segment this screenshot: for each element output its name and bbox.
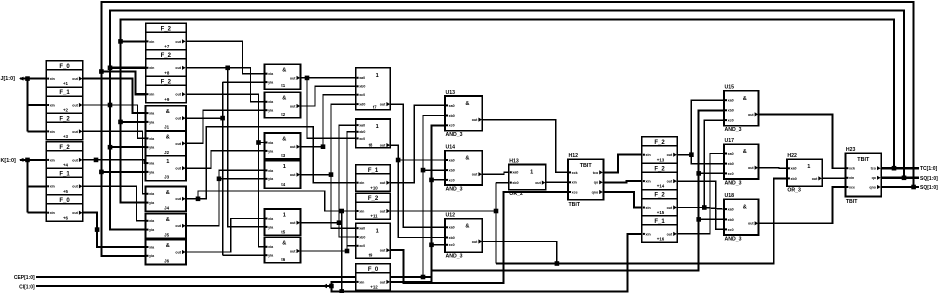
wire CEP tap to U13 pin2	[423, 116, 445, 278]
wire net X to H13 pin2	[496, 182, 509, 184]
AND_3 gate U14	[445, 144, 482, 192]
svg-text:+7: +7	[164, 44, 170, 49]
svg-text:out: out	[290, 76, 296, 80]
T flip-flop H23	[845, 147, 881, 205]
bus tap F_2 (+15)	[642, 190, 677, 216]
svg-text:1: 1	[376, 124, 379, 130]
junction CI rip	[339, 289, 344, 293]
svg-text:t2: t2	[281, 112, 285, 117]
svg-text:F_2: F_2	[654, 193, 665, 199]
svg-text:OR_2: OR_2	[509, 191, 523, 197]
svg-text:xin: xin	[50, 185, 55, 189]
AND_3 gate U15	[724, 85, 759, 133]
wire t2 out to OR4	[301, 77, 356, 79]
wire J5 branch to t5 pin2	[219, 178, 265, 180]
svg-text:tco: tco	[871, 167, 877, 171]
svg-text:J1: J1	[164, 125, 169, 130]
svg-text:xck: xck	[849, 167, 855, 171]
wire J3 out to t4	[186, 151, 265, 168]
svg-text:out: out	[667, 153, 673, 157]
junction CEP-U14 a	[421, 168, 426, 173]
wire net X vertical	[495, 183, 497, 264]
svg-text:out: out	[748, 166, 754, 170]
wire feedback bus B lower branch	[110, 68, 146, 147]
junction F+6 net	[95, 227, 100, 232]
svg-text:AND_3: AND_3	[725, 237, 742, 243]
svg-text:U14: U14	[446, 144, 456, 150]
wire CEP branch to U14 pin3	[432, 179, 446, 181]
wire U16 out to H22	[759, 167, 787, 170]
wire F+7 out to gate t2	[186, 41, 265, 73]
bus tap F_2 (+13)	[642, 137, 677, 163]
wire F+11 out net	[390, 210, 496, 212]
wire CEP branch to U12 pin3	[432, 244, 446, 246]
bus tap F_0 (+6)	[46, 195, 83, 221]
svg-text:out: out	[72, 130, 78, 134]
svg-text:F_1: F_1	[654, 219, 665, 225]
svg-text:xin: xin	[359, 209, 364, 213]
svg-text:SQ[1:0]: SQ[1:0]	[920, 176, 938, 182]
wire K input	[20, 159, 46, 161]
wire F+3 out to gate J4	[83, 131, 146, 193]
junction F+9 net	[256, 140, 261, 145]
svg-text:xb0: xb0	[359, 130, 365, 134]
wire F+6 out to gate J6	[83, 213, 146, 247]
svg-text:xin: xin	[50, 158, 55, 162]
bus tap F_2 (+11)	[356, 193, 391, 219]
svg-text:xin: xin	[149, 93, 154, 97]
svg-text:F_2: F_2	[161, 53, 172, 59]
svg-text:xin: xin	[646, 153, 651, 157]
svg-text:xin: xin	[149, 40, 154, 44]
svg-text:t4: t4	[281, 182, 285, 187]
svg-text:+10: +10	[370, 185, 378, 190]
svg-text:t9: t9	[369, 253, 373, 258]
OR gate J3	[146, 156, 187, 181]
svg-text:qno: qno	[592, 190, 599, 194]
svg-text:out: out	[175, 224, 181, 228]
svg-text:xb0: xb0	[791, 177, 797, 181]
wire F+9 branch to gate t7	[259, 143, 265, 247]
svg-text:out: out	[667, 206, 673, 210]
svg-text:J4: J4	[164, 205, 169, 210]
bus tap F_2 (+7)	[146, 23, 187, 49]
AND_3 gate U13	[445, 90, 482, 138]
wire CEP bus	[36, 125, 445, 277]
bus tap F_2 (+9)	[146, 76, 187, 102]
svg-text:TBIT: TBIT	[846, 199, 858, 205]
junction CI split	[329, 284, 334, 289]
wire F+15 branch to U17	[704, 208, 724, 210]
svg-text:AND_3: AND_3	[725, 127, 742, 133]
bus tap F_1 (+2)	[46, 87, 83, 113]
svg-text:&: &	[166, 134, 170, 140]
svg-text:AND_3: AND_3	[446, 132, 463, 138]
svg-text:F_2: F_2	[161, 79, 172, 85]
svg-text:out: out	[72, 211, 78, 215]
svg-text:U17: U17	[725, 138, 735, 144]
svg-text:xc0: xc0	[359, 244, 365, 248]
svg-text:F_2: F_2	[654, 166, 665, 172]
wire SQ2 output	[881, 186, 919, 188]
svg-text:xck: xck	[572, 171, 578, 175]
svg-text:xin: xin	[149, 66, 154, 70]
svg-text:tco: tco	[593, 171, 599, 175]
wire F+10 out to U13 pin1	[390, 105, 445, 182]
OR gate t9 (3-input)	[356, 119, 391, 148]
wire F+8 out to gate t3	[186, 68, 265, 102]
wire U17 out to TBIT H23	[759, 187, 846, 223]
svg-text:AND_3: AND_3	[446, 254, 463, 260]
wire t6 out to OR3	[301, 125, 356, 223]
svg-text:xb0: xb0	[449, 114, 455, 118]
wire F+13 branch to U16	[691, 155, 724, 164]
svg-text:xin: xin	[50, 211, 55, 215]
svg-text:1: 1	[530, 170, 533, 176]
junction t4 net	[321, 144, 326, 149]
svg-text:xa0: xa0	[728, 152, 734, 156]
wire feedback bus C (TC loop, top)	[121, 20, 895, 169]
wire H13 out to H12	[546, 181, 568, 183]
svg-text:xc0: xc0	[449, 178, 455, 182]
svg-text:J2: J2	[164, 150, 169, 155]
wire K to F_1	[28, 185, 47, 187]
AND gate J5	[146, 214, 187, 239]
junction J5 net	[217, 177, 222, 182]
svg-text:F_2: F_2	[59, 117, 70, 123]
svg-text:+14: +14	[657, 184, 665, 189]
svg-text:+2: +2	[63, 108, 69, 113]
AND gate J1	[146, 106, 187, 131]
wire F+8 branch to gate t6	[228, 68, 265, 227]
svg-text:xc0: xc0	[728, 228, 734, 232]
svg-text:F_1: F_1	[368, 168, 379, 174]
svg-text:&: &	[743, 96, 747, 102]
junction F+4 net	[94, 158, 99, 163]
junction F+11 net	[494, 209, 499, 214]
wire H12 qo to F+14	[603, 181, 642, 182]
svg-text:xb0: xb0	[728, 218, 734, 222]
svg-text:out: out	[175, 117, 181, 121]
svg-text:&: &	[743, 149, 747, 155]
svg-text:out: out	[175, 40, 181, 44]
wire U13 out to H12	[482, 120, 568, 173]
junction F+2 crossing	[108, 103, 113, 108]
svg-text:xc0: xc0	[359, 93, 365, 97]
wire t3 out to OR4	[301, 86, 356, 106]
junction TC feedback	[892, 166, 897, 171]
svg-text:xc0: xc0	[728, 119, 734, 123]
AND_3 gate U16	[724, 138, 759, 186]
svg-text:1: 1	[376, 73, 379, 79]
svg-text:xa0: xa0	[359, 227, 365, 231]
svg-text:&: &	[282, 96, 286, 102]
svg-text:xc0: xc0	[359, 137, 365, 141]
OR gate t4	[265, 161, 301, 188]
junction F+15 net	[702, 205, 707, 210]
wire feedback bus A (QN loop, top)	[101, 2, 913, 187]
svg-text:xin: xin	[50, 103, 55, 107]
svg-text:xb0: xb0	[449, 169, 455, 173]
svg-text:K[1:0]: K[1:0]	[1, 158, 16, 164]
wire F+14 out to U17	[677, 181, 724, 229]
svg-text:xa0: xa0	[449, 226, 455, 230]
wire t5 out to OR4	[301, 104, 356, 175]
OR gate H22	[787, 153, 822, 194]
svg-text:&: &	[166, 217, 170, 223]
svg-text:xa0: xa0	[728, 99, 734, 103]
svg-text:out: out	[72, 158, 78, 162]
wire H22 out to TBIT H23	[822, 177, 845, 179]
svg-text:H22: H22	[787, 153, 797, 159]
svg-text:xc0: xc0	[449, 243, 455, 247]
svg-text:out: out	[290, 104, 296, 108]
OR gate t8 (4-input)	[356, 68, 391, 110]
svg-text:out: out	[667, 180, 673, 184]
svg-text:out: out	[175, 250, 181, 254]
svg-text:xin: xin	[572, 181, 577, 185]
svg-text:xa0: xa0	[512, 171, 518, 175]
junction J bus	[25, 76, 30, 81]
wire CI to F+12	[331, 282, 355, 286]
svg-text:&: &	[465, 101, 469, 107]
wire F+12 out bus	[390, 110, 724, 282]
svg-text:U15: U15	[725, 85, 735, 91]
svg-text:U13: U13	[446, 90, 456, 96]
svg-text:out: out	[72, 103, 78, 107]
wire U14 out to H13	[482, 172, 508, 174]
svg-text:t8: t8	[369, 142, 373, 147]
svg-text:H12: H12	[569, 153, 579, 159]
svg-text:&: &	[743, 204, 747, 210]
svg-text:H13: H13	[509, 158, 519, 164]
svg-text:xin: xin	[646, 206, 651, 210]
svg-text:SQ[1:0]: SQ[1:0]	[920, 185, 938, 191]
wire feedback bus A lowest branch	[101, 172, 145, 256]
svg-text:+6: +6	[63, 215, 69, 220]
svg-text:xb0: xb0	[359, 85, 365, 89]
wire t4 out to OR4	[301, 95, 356, 147]
junction bus A mid	[99, 170, 104, 175]
wire feedback bus C lower branch	[121, 41, 146, 122]
svg-text:+16: +16	[657, 237, 665, 242]
svg-text:U12: U12	[446, 213, 456, 219]
junction K bus	[25, 158, 30, 163]
svg-text:xa0: xa0	[449, 158, 455, 162]
svg-text:xb0: xb0	[728, 109, 734, 113]
svg-text:xin: xin	[359, 181, 364, 185]
svg-text:out: out	[380, 209, 386, 213]
svg-text:+3: +3	[63, 134, 69, 139]
AND gate t3	[265, 133, 301, 159]
bus tap F_1 (+16)	[642, 216, 677, 242]
junction bus B mid	[108, 145, 113, 150]
svg-text:TBIT: TBIT	[569, 202, 581, 208]
svg-text:+1: +1	[63, 81, 69, 86]
wire feedback bus B (Q loop, top)	[110, 11, 904, 178]
svg-text:xb0: xb0	[449, 236, 455, 240]
svg-text:xb0: xb0	[512, 181, 518, 185]
svg-text:J5: J5	[164, 232, 169, 237]
svg-text:1: 1	[283, 212, 286, 218]
svg-text:&: &	[282, 241, 286, 247]
wire TC output	[881, 167, 919, 169]
wire J5 out to t5	[186, 170, 265, 225]
wire CI branch to F+16	[331, 234, 642, 292]
wire U15 out to TBIT H23	[759, 114, 846, 168]
AND_3 gate U12	[445, 213, 482, 260]
svg-text:OR_3: OR_3	[787, 188, 801, 194]
svg-text:xd0: xd0	[359, 103, 365, 107]
wire net X long run to H22	[496, 178, 787, 263]
junction F+11 pin join	[339, 209, 344, 214]
svg-text:&: &	[166, 109, 170, 115]
wire J6 out to t6	[186, 219, 265, 253]
AND_3 gate U17	[724, 193, 759, 242]
svg-text:xa0: xa0	[791, 167, 797, 171]
svg-text:xin: xin	[359, 280, 364, 284]
svg-text:xin: xin	[50, 77, 55, 81]
junction CEP-U14 b	[429, 178, 434, 183]
svg-text:CEP[1:0]: CEP[1:0]	[14, 275, 35, 281]
svg-text:xc0: xc0	[449, 124, 455, 128]
wire t7 out to OR3	[301, 132, 356, 251]
svg-text:F_0: F_0	[59, 198, 70, 204]
junction t7 net	[345, 249, 350, 254]
svg-text:H23: H23	[846, 147, 856, 153]
junction OR3 net	[396, 158, 401, 163]
wire J1 to t7	[223, 254, 265, 256]
svg-text:AND_3: AND_3	[725, 180, 742, 186]
wire J input	[20, 77, 46, 79]
svg-text:J3: J3	[164, 175, 169, 180]
svg-text:out: out	[472, 240, 478, 244]
wire J bus vertical	[26, 79, 28, 132]
wire F+13 out to U15	[677, 100, 724, 155]
svg-text:t1: t1	[281, 83, 285, 88]
junction bus C upper	[118, 39, 123, 44]
svg-text:+11: +11	[370, 214, 378, 219]
wire feedback bus A lower branch	[101, 72, 145, 172]
svg-text:out: out	[380, 280, 386, 284]
svg-text:F_0: F_0	[368, 267, 379, 273]
svg-text:+13: +13	[657, 157, 665, 162]
svg-text:out: out	[175, 197, 181, 201]
svg-text:out: out	[380, 249, 386, 253]
wire t7 branch to OR3 t10	[347, 246, 356, 251]
OR gate H13	[509, 158, 546, 197]
svg-text:out: out	[380, 181, 386, 185]
junction bus B upper	[108, 66, 113, 71]
wire OR4 out to U12	[390, 104, 445, 227]
junction J4 split	[196, 197, 201, 202]
svg-text:F_1: F_1	[59, 172, 70, 178]
svg-text:xc0: xc0	[728, 172, 734, 176]
wire H12 tco to F+13	[603, 155, 642, 173]
wire F+12 branch to U16 pin3	[699, 172, 724, 174]
wire F+2 out to gate J2	[83, 105, 146, 138]
wire F+1 out to gate J1	[83, 79, 146, 114]
svg-text:out: out	[290, 145, 296, 149]
svg-text:out: out	[175, 93, 181, 97]
svg-text:xa0: xa0	[359, 76, 365, 80]
svg-text:out: out	[380, 103, 386, 107]
wire J1 out vertical t2-t7	[222, 82, 224, 255]
svg-text:xin: xin	[646, 232, 651, 236]
junction t2 net	[305, 76, 310, 81]
svg-text:out: out	[748, 222, 754, 226]
svg-text:xin: xin	[849, 176, 854, 180]
svg-text:+9: +9	[164, 97, 170, 102]
svg-text:F_2: F_2	[161, 27, 172, 33]
wire t5 branch to OR3 t10	[331, 175, 356, 229]
junction J1 net	[220, 116, 225, 121]
svg-text:CI[1:0]: CI[1:0]	[19, 285, 35, 291]
svg-text:out: out	[175, 142, 181, 146]
svg-text:&: &	[166, 190, 170, 196]
bus tap F_2 (+8)	[146, 50, 187, 76]
svg-text:1: 1	[166, 159, 169, 165]
wire J1 to t2	[223, 81, 265, 83]
junction bus A upper	[99, 69, 104, 74]
AND gate t1	[265, 64, 301, 89]
bus tap F_2 (+3)	[46, 113, 83, 139]
wire t6 branch to OR3 t10	[339, 223, 356, 237]
wire CI bus	[36, 285, 331, 287]
svg-text:+8: +8	[164, 70, 170, 75]
svg-text:xa0: xa0	[359, 124, 365, 128]
svg-text:J[1:0]: J[1:0]	[1, 76, 16, 82]
wire J4 out to F+10	[186, 127, 356, 199]
svg-text:AND_3: AND_3	[446, 186, 463, 192]
wire K bus vertical	[26, 160, 28, 213]
svg-text:TBIT: TBIT	[857, 157, 870, 163]
wire F+12 branch to U17 pin2	[699, 218, 724, 220]
svg-text:&: &	[166, 243, 170, 249]
AND gate J2	[146, 131, 187, 156]
wire J2 out to t3	[186, 110, 265, 143]
svg-text:&: &	[465, 224, 469, 230]
svg-text:F_2: F_2	[654, 140, 665, 146]
svg-text:out: out	[290, 249, 296, 253]
AND gate t6	[265, 237, 301, 262]
svg-text:out: out	[812, 177, 818, 181]
svg-text:TBIT: TBIT	[580, 163, 593, 169]
svg-text:+5: +5	[63, 189, 69, 194]
wire H12 qno to F+15	[603, 192, 642, 208]
svg-text:out: out	[748, 113, 754, 117]
svg-text:out: out	[290, 173, 296, 177]
svg-text:t6: t6	[281, 257, 285, 262]
AND gate J4	[146, 187, 187, 212]
svg-text:1: 1	[807, 164, 810, 170]
wire J to F_1	[28, 104, 47, 106]
svg-text:F_2: F_2	[368, 196, 379, 202]
AND gate J6	[146, 240, 187, 265]
T flip-flop H12	[568, 153, 603, 208]
svg-text:F_2: F_2	[59, 145, 70, 151]
wire F+9 out to gate t4	[186, 94, 265, 142]
junction F+13 net	[689, 152, 694, 157]
wire SQ output	[881, 177, 919, 179]
svg-text:+4: +4	[63, 163, 69, 168]
wire OR3 branch to U12	[398, 160, 445, 238]
svg-text:out: out	[72, 77, 78, 81]
svg-text:xin: xin	[50, 130, 55, 134]
wire CI rip to F+11 row	[341, 211, 343, 291]
bus tap F_1 (+10)	[356, 165, 391, 191]
svg-text:out: out	[72, 185, 78, 189]
